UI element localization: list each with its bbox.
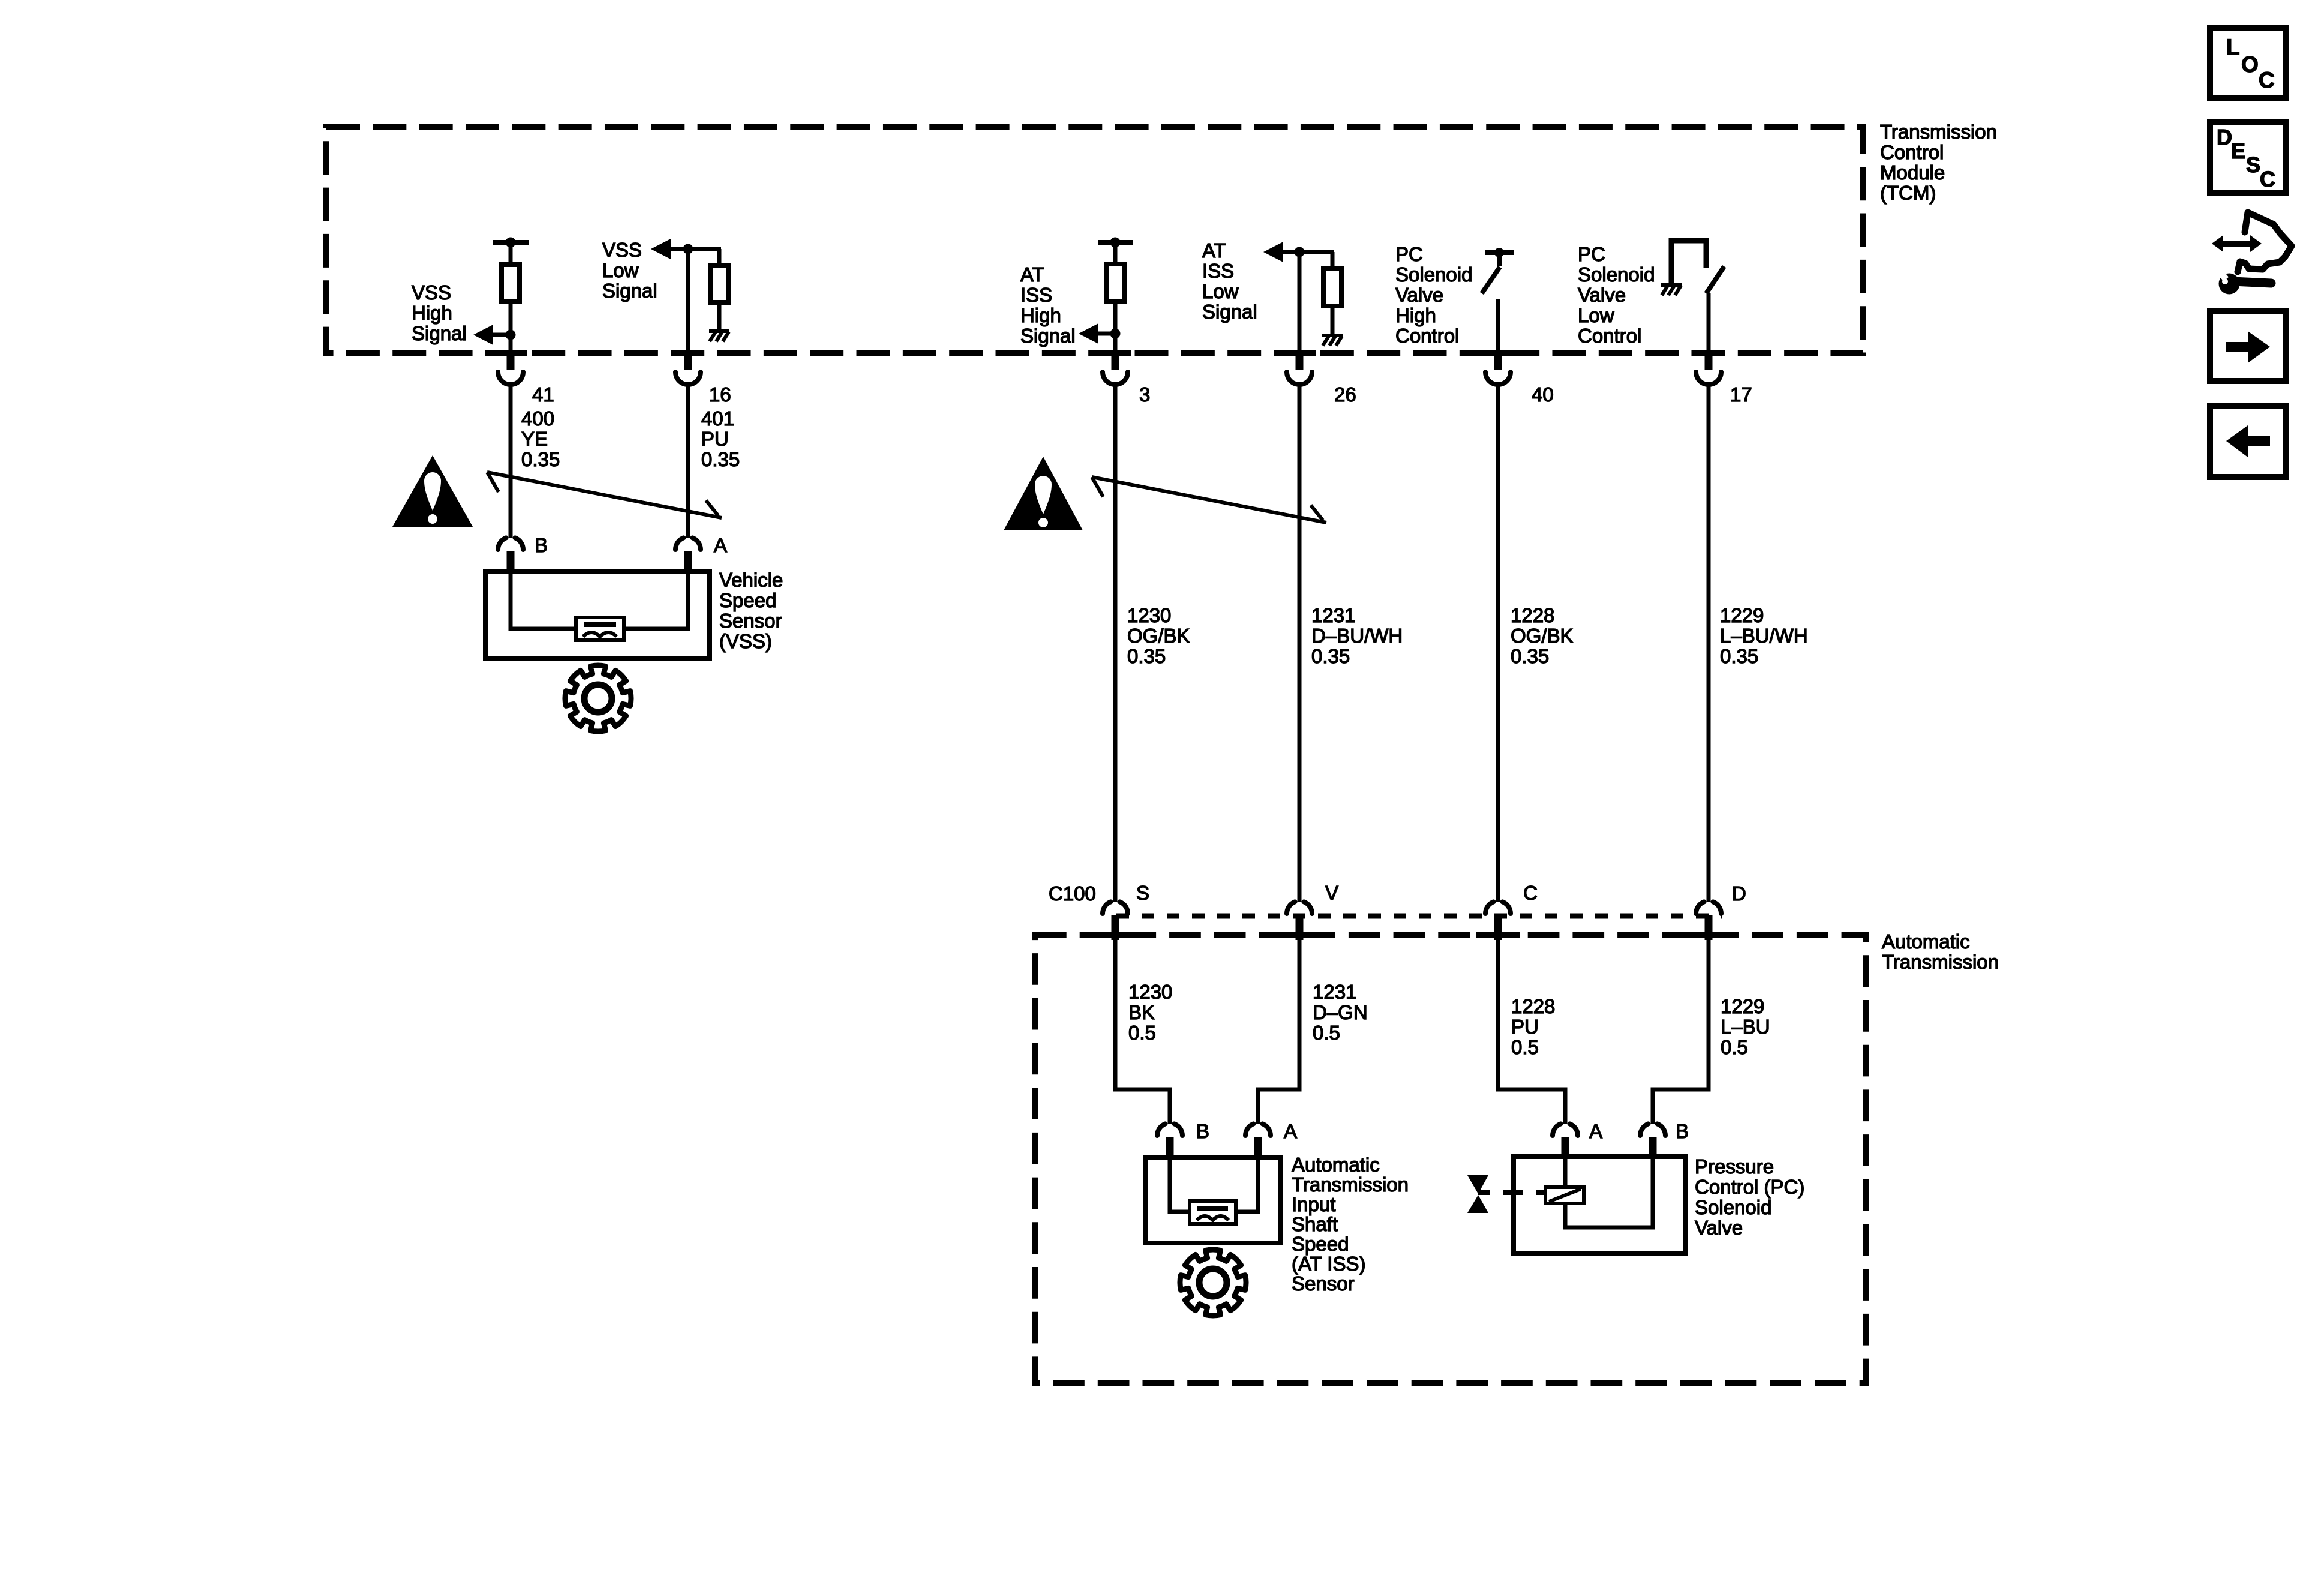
wire label 1230 BK 0.5 (1128, 981, 1172, 1044)
svg-text:0.35: 0.35 (1127, 645, 1166, 667)
svg-text:D: D (1732, 882, 1746, 905)
svg-text:BK: BK (1128, 1001, 1155, 1023)
pin 3 label (1139, 383, 1150, 406)
connector pin 16 (672, 350, 704, 385)
connector pin 26 (1283, 350, 1316, 385)
pin 17 label (1730, 383, 1752, 406)
svg-text:V: V (1325, 882, 1338, 904)
svg-text:L–BU: L–BU (1721, 1016, 1770, 1038)
wire to resistor R1 (509, 242, 513, 265)
warning triangle 2 (1004, 457, 1083, 530)
AT ISS Low Signal arrow (1263, 242, 1301, 262)
PC high T-bar (1485, 250, 1514, 255)
svg-text:High: High (1395, 304, 1436, 326)
AT ISS sensor box (1145, 1158, 1280, 1243)
gear icon (AT ISS) (1180, 1250, 1246, 1316)
svg-text:1231: 1231 (1313, 981, 1356, 1003)
wire VSS low to pin 16 (686, 249, 690, 350)
svg-text:A: A (714, 534, 727, 556)
pin V label (1325, 882, 1338, 904)
svg-text:B: B (535, 534, 548, 556)
wire 1230 BK (1115, 940, 1170, 1124)
svg-text:VSS: VSS (602, 239, 642, 261)
svg-text:C: C (1523, 882, 1538, 904)
ground (AT ISS low) (1322, 334, 1343, 346)
svg-text:Solenoid: Solenoid (1695, 1196, 1771, 1218)
svg-text:1229: 1229 (1721, 995, 1764, 1017)
AT ISS sensor element (1190, 1201, 1236, 1224)
svg-text:(TCM): (TCM) (1880, 182, 1936, 204)
svg-text:Sensor: Sensor (719, 610, 782, 632)
svg-text:VSS: VSS (412, 281, 451, 304)
ATISS high T-bar (1098, 240, 1133, 245)
svg-text:Transmission: Transmission (1882, 951, 1999, 973)
svg-text:PC: PC (1578, 243, 1605, 265)
svg-text:Pressure: Pressure (1695, 1155, 1774, 1178)
connector B (VSS) (498, 538, 523, 572)
connector pin 17 (1692, 350, 1725, 385)
next-view icon box (2210, 311, 2286, 381)
connector A (PC) (1553, 1124, 1578, 1159)
svg-text:0.35: 0.35 (521, 448, 560, 470)
branch wire down 2 (1331, 252, 1335, 269)
svg-text:Module: Module (1880, 161, 1945, 184)
svg-text:Shaft: Shaft (1292, 1213, 1338, 1235)
repair icon connector outline (2238, 212, 2292, 272)
repair icon wrench (2216, 268, 2271, 294)
C100 label (1049, 882, 1096, 905)
node dot ATISS high top (1110, 238, 1121, 248)
wire label 1230 OG/BK 0.35 (1127, 604, 1190, 667)
LOC letters (2226, 35, 2275, 92)
svg-text:B: B (1676, 1120, 1689, 1142)
VSS label (719, 569, 783, 652)
svg-text:17: 17 (1730, 383, 1752, 406)
ground (PC low) (1661, 283, 1682, 295)
TCM label (1880, 121, 1997, 204)
DESC letters (2217, 125, 2275, 191)
wire 1230 OG/BK (1113, 386, 1118, 902)
svg-text:(VSS): (VSS) (719, 630, 772, 652)
wire dot to resistor branch 2 (1299, 250, 1334, 254)
twisted-pair marker 1 (487, 472, 722, 518)
svg-text:Automatic: Automatic (1292, 1154, 1380, 1176)
svg-text:0.35: 0.35 (1511, 645, 1549, 667)
pin 16 label (709, 383, 731, 406)
wire 1228 PU (1498, 940, 1565, 1124)
wire to resistor R3 (1113, 242, 1118, 264)
wire label 401 PU 0.35 (701, 407, 740, 470)
pin S label (1136, 882, 1149, 904)
svg-text:26: 26 (1334, 383, 1356, 406)
switch contact stub (pin 40) (1497, 253, 1502, 266)
svg-text:Transmission: Transmission (1880, 121, 1997, 143)
prev-view left arrow (2226, 425, 2270, 457)
wire ATISS low to pin 26 (1298, 252, 1302, 350)
pin C label (1523, 882, 1538, 904)
valve symbol (1467, 1175, 1490, 1213)
resistor R2 (VSS low pull) (710, 265, 728, 302)
switch blade (pin 40) (1482, 267, 1500, 293)
AT ISS High Signal label (1020, 263, 1076, 347)
svg-text:1228: 1228 (1511, 604, 1554, 626)
svg-text:Valve: Valve (1395, 284, 1443, 306)
wire label 1231 D-GN 0.5 (1313, 981, 1368, 1044)
svg-text:1229: 1229 (1720, 604, 1764, 626)
connector B (AT ISS) (1157, 1124, 1182, 1159)
svg-text:Solenoid: Solenoid (1395, 263, 1472, 286)
svg-text:S: S (1136, 882, 1149, 904)
wire label 400 YE 0.35 (521, 407, 560, 470)
svg-text:D–BU/WH: D–BU/WH (1311, 625, 1403, 647)
wire PC low to pin 17 (1707, 293, 1711, 350)
svg-text:1230: 1230 (1128, 981, 1172, 1003)
svg-text:High: High (1020, 304, 1061, 326)
connector B (PC) (1640, 1124, 1665, 1159)
VSS High Signal arrow (473, 325, 509, 345)
svg-text:ISS: ISS (1020, 284, 1052, 306)
svg-text:Low: Low (1578, 304, 1614, 326)
svg-text:PU: PU (701, 428, 729, 450)
wire label 1231 D-BU/WH 0.35 (1311, 604, 1403, 667)
svg-text:PU: PU (1511, 1016, 1539, 1038)
svg-text:(AT ISS): (AT ISS) (1292, 1253, 1365, 1275)
gear icon (VSS) (565, 665, 631, 731)
pin 40 label (1532, 383, 1554, 406)
svg-text:0.5: 0.5 (1128, 1022, 1156, 1044)
svg-text:Automatic: Automatic (1882, 930, 1970, 953)
svg-text:C: C (2260, 167, 2275, 191)
svg-text:3: 3 (1139, 383, 1150, 406)
svg-text:A: A (1589, 1120, 1602, 1142)
PC internal wire coil to B (1565, 1159, 1653, 1227)
pin A label (AT ISS) (1284, 1120, 1297, 1142)
resistor R4 (AT ISS low pull) (1323, 269, 1341, 306)
wire 1229 L-BU (1653, 940, 1709, 1124)
wire label 1229 L-BU/WH 0.35 (1720, 604, 1808, 667)
pin 26 label (1334, 383, 1356, 406)
svg-text:0.5: 0.5 (1511, 1036, 1539, 1058)
valve link dashes (1503, 1190, 1545, 1195)
wire 1228 OG/BK (1496, 386, 1500, 902)
svg-text:Signal: Signal (1202, 301, 1257, 323)
PC Solenoid Valve High Control label (1395, 243, 1472, 347)
wire 401 PU (686, 386, 690, 538)
svg-text:OG/BK: OG/BK (1511, 625, 1574, 647)
resistor R1 (VSS high pull) (502, 265, 520, 301)
wire PC high to pin 40 (1496, 299, 1500, 350)
svg-text:Sensor: Sensor (1292, 1272, 1355, 1295)
svg-text:Valve: Valve (1695, 1217, 1743, 1239)
svg-text:41: 41 (532, 383, 554, 406)
svg-text:C: C (2259, 68, 2275, 92)
resistor R3 (AT ISS high pull) (1106, 264, 1124, 301)
pin D label (1732, 882, 1746, 905)
connector C100-C (1485, 902, 1511, 940)
svg-text:Signal: Signal (1020, 325, 1076, 347)
prev-view icon box (2210, 406, 2286, 477)
twisted-pair marker 2 (1092, 477, 1326, 523)
svg-text:Solenoid: Solenoid (1578, 263, 1655, 286)
wire 400 YE (509, 386, 513, 538)
connector C100-D (1696, 902, 1721, 940)
svg-text:1228: 1228 (1511, 995, 1555, 1017)
node dot VSS high top (506, 238, 516, 248)
svg-text:B: B (1196, 1120, 1209, 1142)
svg-text:A: A (1284, 1120, 1297, 1142)
VSS High Signal label (412, 281, 467, 344)
C100 connector dotted line (1116, 914, 1722, 919)
ATISS internal wire B (1170, 1160, 1191, 1212)
node dot ATISS high signal (1110, 329, 1121, 339)
connector pin 40 (1482, 350, 1514, 385)
svg-text:40: 40 (1532, 383, 1554, 406)
svg-text:Low: Low (602, 259, 639, 281)
svg-text:O: O (2241, 52, 2259, 77)
switch blade (pin 17) (1706, 266, 1724, 293)
wire label 1228 PU 0.5 (1511, 995, 1555, 1058)
wire label 1228 OG/BK 0.35 (1511, 604, 1574, 667)
Automatic Transmission label (1882, 930, 1999, 973)
PC Solenoid Valve box (1514, 1157, 1685, 1253)
svg-text:0.35: 0.35 (1311, 645, 1350, 667)
svg-text:E: E (2231, 139, 2245, 163)
PC internal wire A to coil (1563, 1159, 1568, 1188)
svg-text:Signal: Signal (412, 322, 467, 344)
wire R2 to ground (717, 302, 722, 331)
wire R4 to ground (1331, 306, 1335, 335)
PC Solenoid Valve Low Control label (1578, 243, 1655, 347)
pin B label (PC) (1676, 1120, 1689, 1142)
svg-text:ISS: ISS (1202, 260, 1234, 282)
svg-text:1231: 1231 (1311, 604, 1355, 626)
svg-text:S: S (2246, 152, 2260, 177)
wire R1 to pin 41 (509, 301, 513, 350)
svg-text:0.5: 0.5 (1721, 1036, 1748, 1058)
svg-text:1230: 1230 (1127, 604, 1171, 626)
svg-text:Control: Control (1880, 141, 1944, 163)
svg-text:D: D (2217, 125, 2232, 149)
svg-text:Control: Control (1395, 325, 1459, 347)
AT ISS Low Signal label (1202, 239, 1257, 323)
PC Solenoid Valve label (1695, 1155, 1804, 1239)
AT ISS High Signal arrow (1079, 323, 1114, 344)
svg-text:Low: Low (1202, 280, 1239, 302)
pin A label (PC) (1589, 1120, 1602, 1142)
VSS Low Signal label (602, 239, 657, 302)
AT box top dash ticks (1094, 932, 1730, 938)
solenoid coil (1545, 1187, 1584, 1203)
node dot VSS low (683, 244, 693, 254)
svg-text:Control: Control (1578, 325, 1641, 347)
pin B label (VSS) (535, 534, 548, 556)
connector A (VSS) (675, 538, 701, 572)
svg-text:16: 16 (709, 383, 731, 406)
DESC icon box (2210, 122, 2286, 193)
svg-text:401: 401 (701, 407, 734, 430)
VSS Low Signal arrow (651, 239, 690, 259)
LOC icon box (2210, 28, 2286, 98)
AT ISS Sensor label (1292, 1154, 1409, 1295)
connector A (AT ISS) (1245, 1124, 1271, 1159)
svg-text:0.35: 0.35 (701, 448, 740, 470)
svg-text:Signal: Signal (602, 280, 657, 302)
TCM dashed box (326, 127, 1863, 353)
pin A label (VSS) (714, 534, 727, 556)
svg-text:0.5: 0.5 (1313, 1022, 1340, 1044)
VSS high T-bar (493, 240, 529, 245)
wire 1229 L-BU/WH (1707, 386, 1711, 902)
wire 1231 D-BU/WH (1298, 386, 1302, 902)
next-view right arrow (2226, 331, 2270, 363)
svg-text:L–BU/WH: L–BU/WH (1720, 625, 1808, 647)
svg-text:AT: AT (1202, 239, 1226, 262)
branch wire down (717, 249, 722, 265)
connector C100-S (1103, 902, 1128, 940)
node dot ATISS low (1295, 247, 1305, 257)
connector pin 3 (1099, 350, 1131, 385)
pin B label (AT ISS) (1196, 1120, 1209, 1142)
node dot PC high (1494, 248, 1504, 257)
repair icon double arrow (2212, 235, 2262, 252)
svg-text:OG/BK: OG/BK (1127, 625, 1190, 647)
svg-text:High: High (412, 302, 452, 324)
svg-text:Valve: Valve (1578, 284, 1626, 306)
svg-text:Speed: Speed (1292, 1233, 1349, 1255)
svg-text:0.35: 0.35 (1720, 645, 1758, 667)
connector C100-V (1287, 902, 1312, 940)
wire R3 to pin 3 (1113, 301, 1118, 350)
wire label 1229 L-BU 0.5 (1721, 995, 1770, 1058)
svg-text:400: 400 (521, 407, 554, 430)
svg-text:C100: C100 (1049, 882, 1096, 905)
wire 1231 D-GN (1258, 940, 1299, 1124)
svg-text:L: L (2226, 35, 2240, 59)
connector pin 41 (494, 350, 527, 385)
node dot VSS high signal (506, 330, 516, 340)
svg-text:Transmission: Transmission (1292, 1173, 1409, 1196)
svg-text:YE: YE (521, 428, 548, 450)
svg-text:Vehicle: Vehicle (719, 569, 783, 591)
VSS internal wire A (623, 574, 688, 629)
ATISS internal wire A (1235, 1160, 1258, 1212)
goalpost wire (pin 17) (1671, 241, 1706, 283)
VSS sensor element (576, 617, 624, 640)
svg-text:D–GN: D–GN (1313, 1001, 1368, 1023)
svg-text:PC: PC (1395, 243, 1423, 265)
svg-text:Speed: Speed (719, 589, 776, 611)
Vehicle Speed Sensor box (485, 571, 710, 659)
svg-text:Control (PC): Control (PC) (1695, 1176, 1804, 1198)
svg-text:AT: AT (1020, 263, 1044, 286)
svg-text:Input: Input (1292, 1193, 1335, 1215)
ground (VSS low) (709, 329, 729, 341)
wire dot to resistor branch (688, 247, 721, 251)
pin 41 label (532, 383, 554, 406)
VSS internal wire B (511, 574, 577, 629)
warning triangle 1 (392, 455, 473, 527)
Automatic Transmission dashed box (1035, 935, 1866, 1383)
